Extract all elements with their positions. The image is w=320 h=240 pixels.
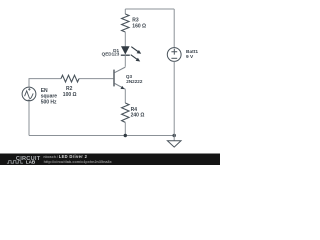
wire R4 to bottom rail <box>124 122 126 135</box>
wire EN bottom to bottom rail <box>28 101 30 136</box>
svg-text:LAB: LAB <box>26 160 36 165</box>
battery Batt1 (circle with + and - marks) <box>167 48 181 62</box>
junction node Batt1/bottom rail <box>173 134 176 137</box>
svg-text:9 V: 9 V <box>186 54 194 60</box>
svg-text:500 Hz: 500 Hz <box>41 99 57 105</box>
transistor Q3 (NPN: base bar, collector, emitter with arrow) <box>114 67 125 89</box>
wire R3 top stub <box>124 9 126 14</box>
svg-text:2N2222: 2N2222 <box>126 79 143 84</box>
svg-text:160 Ω: 160 Ω <box>132 24 146 30</box>
svg-text:http://circuitlab.com/c4pxhn2n: http://circuitlab.com/c4pxhn2n35na8x <box>44 160 113 164</box>
wire EN top to R2 <box>29 79 61 88</box>
wire R2 to Q3 base <box>79 78 113 80</box>
wire Batt1 top to top rail <box>173 9 175 48</box>
wire D1 cathode to Q3 collector <box>124 55 126 67</box>
wire R3 to D1 <box>124 32 126 47</box>
wire bottom rail (EN to ground node) <box>29 135 174 137</box>
resistor R4 <box>122 103 129 122</box>
resistor R3 <box>122 14 129 32</box>
wire top rail (R3 top to Batt1 top) <box>125 8 174 10</box>
voltage source EN (circle, +/- marks, waveform glyph) <box>22 87 36 101</box>
svg-text:nbosch / LED Driver 2: nbosch / LED Driver 2 <box>43 154 87 159</box>
footer logo squarewave glyph <box>7 161 23 164</box>
wire Q3 emitter to R4 <box>124 89 126 103</box>
svg-text:QED123: QED123 <box>102 52 120 57</box>
svg-text:100 Ω: 100 Ω <box>63 92 77 98</box>
junction node R4/bottom rail <box>124 134 127 137</box>
ground <box>167 136 181 148</box>
wire Batt1 bottom to bottom rail <box>173 61 175 135</box>
footer bar <box>0 154 220 166</box>
svg-text:240 Ω: 240 Ω <box>131 113 145 119</box>
diode D1 (LED, triangle + cathode bar + emission arrows) <box>121 46 141 61</box>
resistor R2 <box>61 75 79 82</box>
